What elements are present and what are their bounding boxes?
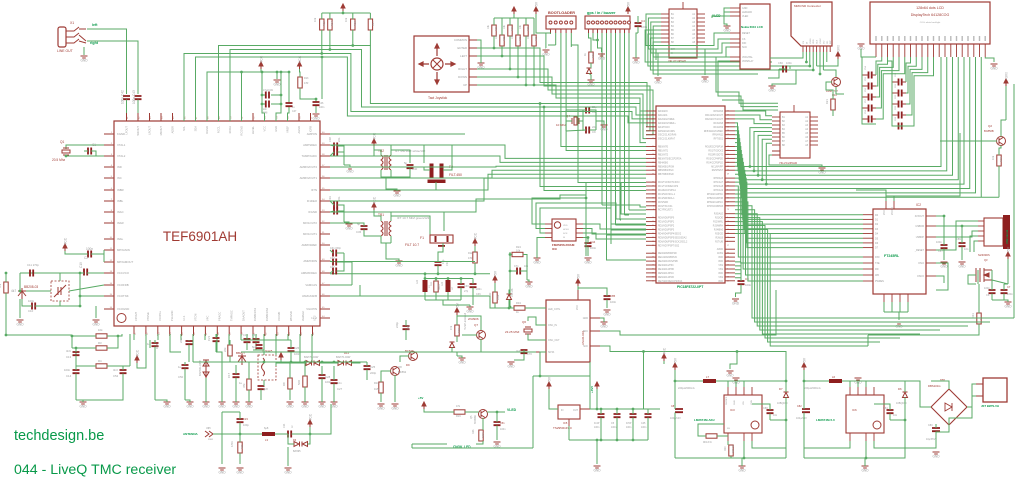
resistor R25 10k (516, 35, 520, 46)
transistor Q5 BC8568 (479, 410, 488, 419)
svg-text:GND: GND (377, 407, 385, 411)
svg-text:C26: C26 (294, 346, 300, 350)
resistor R10 1M (379, 382, 383, 393)
svg-text:MPXAMOUT: MPXAMOUT (117, 260, 133, 264)
capacitor C9 22p (586, 127, 589, 134)
svg-text:VDISPLAY: VDISPLAY (742, 60, 754, 63)
svg-text:RE1/AD9/WR/P2C: RE1/AD9/WR/P2C (658, 256, 677, 259)
capacitor C29 220p (403, 326, 410, 329)
wires Q6 (528, 317, 546, 340)
svg-text:WP: WP (830, 40, 832, 44)
svg-text:10 MhZ: 10 MhZ (556, 123, 566, 127)
svg-text:GND: GND (16, 323, 24, 327)
svg-text:RD6/AD6/PSP6/SCK2/SCL2: RD6/AD6/PSP6/SCK2/SCL2 (658, 240, 688, 243)
wires IC7 to mmc (645, 30, 796, 74)
inductor L5 110nH dashed (258, 355, 276, 380)
svg-text:C15: C15 (155, 343, 159, 349)
capacitor C51 100n (494, 422, 501, 425)
svg-text:1u5: 1u5 (441, 281, 444, 286)
svg-text:R30: R30 (591, 53, 595, 58)
capacitor C49 47u (266, 92, 269, 99)
svg-text:IC6: IC6 (852, 408, 857, 412)
svg-text:RA2/AN2/VREF-: RA2/AN2/VREF- (658, 118, 675, 121)
capacitor C7 100n (1001, 290, 1008, 293)
svg-text:220µH/300mA: 220µH/300mA (804, 386, 821, 390)
svg-text:BC856B: BC856B (984, 129, 994, 133)
svg-text:R12: R12 (468, 252, 473, 255)
svg-text:5p: 5p (404, 161, 408, 165)
svg-text:C18: C18 (243, 333, 248, 337)
svg-text:RC4/SDI/SDA-1: RC4/SDI/SDA-1 (658, 197, 675, 200)
connector X2 JST B2PS-VH (983, 378, 1007, 402)
joystick pins (454, 38, 477, 87)
svg-text:GND: GND (301, 405, 309, 409)
svg-text:WR: WR (875, 274, 879, 277)
svg-text:RH1/A17: RH1/A17 (714, 181, 724, 184)
capacitor C2 100n (88, 251, 91, 258)
svg-text:LINE OUT: LINE OUT (57, 49, 73, 53)
svg-text:100n: 100n (786, 61, 792, 65)
resistor R8 (288, 378, 292, 389)
supply VCC R12 (473, 239, 477, 246)
svg-text:PWREN: PWREN (875, 280, 884, 283)
svg-text:GND: GND (232, 405, 240, 409)
svg-text:C36: C36 (356, 230, 362, 234)
svg-text:RD2/AD2/PSP2: RD2/AD2/PSP2 (658, 225, 675, 228)
svg-text:IC9: IC9 (552, 247, 557, 251)
svg-text:044 - LiveQ TMC receiver: 044 - LiveQ TMC receiver (14, 462, 176, 478)
svg-text:100n: 100n (745, 283, 752, 287)
svg-text:10k: 10k (98, 328, 103, 332)
svg-text:AMMX2OUT2: AMMX2OUT2 (300, 165, 318, 169)
svg-text:GND: GND (587, 83, 595, 87)
svg-text:100n: 100n (984, 286, 990, 290)
capacitor C45 100n (645, 414, 652, 417)
svg-text:FILT.450: FILT.450 (449, 173, 462, 177)
svg-text:GND: GND (395, 264, 403, 268)
svg-text:VCOGND: VCOGND (117, 307, 129, 311)
resistor R29 10k (524, 25, 528, 36)
svg-text:100n: 100n (28, 299, 35, 303)
svg-text:VGCPIN: VGCPIN (306, 307, 317, 311)
resistor R23 10k (500, 35, 504, 46)
svg-text:100n: 100n (1007, 292, 1013, 296)
supply +5V reg2 (802, 363, 806, 370)
svg-text:C32: C32 (330, 257, 335, 260)
svg-text:RF7/SS1: RF7/SS1 (714, 139, 724, 141)
svg-text:+5V: +5V (456, 302, 460, 309)
svg-text:RB2/INT2: RB2/INT2 (658, 154, 669, 156)
svg-text:100n: 100n (641, 426, 647, 429)
connector X3 USB mini-B (984, 218, 1003, 246)
svg-text:RG4/CCP5/P1D: RG4/CCP5/P1D (706, 162, 723, 164)
supply arrow top resistors (341, 4, 345, 11)
svg-text:ANTENNA: ANTENNA (183, 432, 198, 436)
svg-text:INBL: INBL (117, 199, 124, 203)
svg-text:R15: R15 (322, 21, 326, 26)
svg-text:D9: D9 (406, 363, 410, 367)
svg-text:R26: R26 (495, 26, 498, 31)
capacitor C3 100n (738, 281, 745, 284)
svg-text:128x64 dots LCD: 128x64 dots LCD (916, 6, 944, 10)
svg-text:XTAL1: XTAL1 (117, 143, 126, 147)
svg-text:GND: GND (92, 323, 100, 327)
module U2 radio body (546, 300, 590, 362)
wires R22 D8 (495, 283, 510, 308)
svg-text:100n C43: 100n C43 (132, 90, 136, 104)
wire mpx (65, 250, 104, 262)
transistor Q10 FMMT717 (832, 78, 841, 87)
ground gps pin3 (598, 54, 605, 56)
svg-text:C70: C70 (527, 352, 532, 356)
wire bus pic right to ft245 (735, 154, 863, 247)
transistor D9 BC848 (409, 352, 418, 361)
svg-text:PLLGND: PLLGND (170, 310, 174, 321)
regulator IC3 LM2674M-ADJ body (724, 395, 762, 433)
svg-text:Q1: Q1 (60, 140, 64, 144)
capacitor C49b 22u (186, 341, 193, 344)
svg-text:OSC2/CLKO/RA6: OSC2/CLKO/RA6 (658, 134, 677, 137)
U1 pin numbers (110, 116, 326, 335)
svg-text:I.C.1: I.C.1 (182, 315, 186, 321)
crystal Q4 10MHz (572, 117, 579, 125)
svg-text:R20: R20 (724, 446, 727, 451)
svg-text:23.25 MhZ: 23.25 MhZ (505, 330, 520, 334)
svg-text:VREF: VREF (286, 126, 290, 133)
buffer IC8 74LVC245AD body (780, 112, 810, 158)
svg-text:L6: L6 (832, 375, 836, 379)
ground C89 (959, 262, 966, 264)
svg-text:GND: GND (734, 400, 736, 405)
svg-text:AGND: AGND (297, 126, 301, 134)
ground C6 C7 (1005, 302, 1012, 304)
ground MMC (769, 86, 776, 88)
svg-text:C33: C33 (328, 196, 332, 201)
microcontroller IC1 PIC18F8722 body (656, 106, 725, 283)
svg-text:VCC: VCC (663, 347, 667, 355)
svg-text:ADDR: ADDR (171, 126, 175, 133)
ground jack (83, 47, 85, 55)
svg-text:R1: R1 (0, 284, 2, 288)
svg-text:GND: GND (186, 405, 194, 409)
capacitor C19b (253, 339, 260, 342)
svg-text:RB1/INT1: RB1/INT1 (658, 151, 669, 153)
svg-text:6p8: 6p8 (263, 387, 268, 391)
resistor R14 10k (328, 19, 332, 30)
capacitor C85 100n (604, 296, 611, 299)
svg-text:INAR: INAR (117, 221, 124, 225)
resistor R11 560R (434, 281, 438, 292)
svg-text:AMMX2OUT1: AMMX2OUT1 (300, 176, 318, 180)
ground C70 (508, 362, 515, 364)
wires gps header (589, 33, 630, 235)
ground D4 (203, 402, 210, 404)
svg-text:USBDM: USBDM (915, 225, 924, 228)
svg-text:3n3: 3n3 (113, 368, 118, 372)
svg-text:RF1/AN6/C2OUT: RF1/AN6/C2OUT (705, 114, 723, 117)
resistor R15 10k (320, 19, 324, 30)
resistor R1 4k7 (4, 282, 8, 293)
svg-text:RB5/KBI1/PGM: RB5/KBI1/PGM (658, 166, 674, 168)
svg-text:GND: GND (583, 317, 589, 320)
svg-text:C30: C30 (464, 285, 469, 288)
ground C3 (732, 299, 739, 301)
svg-text:GND: GND (312, 117, 320, 121)
svg-text:JST B2PS-VH: JST B2PS-VH (981, 404, 999, 408)
ground C14 (80, 402, 87, 404)
capacitor C13 3n9 (73, 352, 80, 355)
svg-text:_RESET: _RESET (914, 249, 925, 252)
capacitor C66 100n (783, 66, 786, 73)
svg-text:IC4P: IC4P (594, 422, 600, 425)
ground FT245 (896, 322, 903, 324)
svg-text:INAL: INAL (117, 237, 124, 241)
U1 bottom pins (134, 307, 317, 336)
capacitor ladder C59-C63 (899, 79, 902, 130)
svg-text:C7: C7 (1007, 285, 1011, 289)
svg-text:VCC: VCC (263, 126, 267, 132)
svg-text:R17: R17 (371, 21, 375, 26)
svg-text:GND: GND (318, 405, 326, 409)
svg-text:VCOFDB: VCOFDB (117, 283, 129, 287)
svg-text:HLMP-EG/EG3: HLMP-EG/EG3 (464, 312, 467, 330)
ground below pic (727, 371, 734, 373)
IC6 pins (850, 387, 874, 441)
svg-text:220µH/300mA: 220µH/300mA (678, 386, 695, 390)
wires C70 (514, 350, 536, 360)
svg-text:RG5/TEST: RG5/TEST (712, 170, 724, 172)
diode D7 10BQ040 (784, 392, 789, 398)
svg-text:22k: 22k (223, 347, 227, 352)
svg-text:R21: R21 (825, 99, 829, 104)
svg-text:RE3/AD11/P3C: RE3/AD11/P3C (658, 264, 674, 267)
wire pic left extra (540, 45, 646, 191)
svg-text:RCDA: RCDA (228, 126, 232, 134)
svg-text:C31 150p: C31 150p (330, 247, 341, 250)
svg-text:GND: GND (738, 469, 746, 473)
supply VCC tuner (63, 244, 67, 251)
ground varactor 2 (93, 320, 100, 322)
svg-text:MMC/SD Connector: MMC/SD Connector (794, 4, 821, 8)
svg-text:AMPSDEC: AMPSDEC (303, 143, 317, 147)
svg-text:FMMX1IN2: FMMX1IN2 (265, 307, 269, 321)
svg-text:PIC18F8722-I/PT: PIC18F8722-I/PT (677, 285, 704, 289)
ground IC7 right (702, 77, 709, 79)
svg-text:ON/OFF: ON/OFF (726, 396, 728, 405)
svg-text:100p: 100p (243, 423, 249, 427)
diode D3 BA595 (294, 442, 300, 447)
svg-text:RC1/T1OSI/ECCP2: RC1/T1OSI/ECCP2 (658, 186, 679, 188)
svg-text:49: 49 (727, 174, 729, 176)
svg-text:+5V: +5V (1007, 246, 1011, 253)
ground C47 (941, 262, 948, 264)
wires FT245 bottom (884, 302, 908, 320)
wires R2 R3 R4 (6, 334, 130, 366)
wire joystick up to pic (477, 85, 646, 143)
diode D4 BAP64L-04W (203, 360, 209, 378)
wires TR2 (330, 145, 424, 177)
capacitor C87 100u (675, 409, 683, 412)
wires bridge (905, 381, 976, 448)
svg-text:VLED: VLED (742, 15, 749, 18)
regulator IC5 TS2950 body (558, 405, 580, 419)
svg-text:RD: RD (875, 268, 879, 271)
svg-text:1K5/1%: 1K5/1% (733, 445, 735, 453)
resistor R26 10k (492, 25, 496, 36)
capacitor C18 (244, 339, 251, 342)
svg-text:OUT: OUT (573, 409, 579, 412)
connector U4 MMC/SD body (791, 2, 832, 46)
wires C13 C14 (75, 348, 77, 400)
svg-text:C4: C4 (641, 19, 645, 23)
svg-text:VCC: VCC (474, 232, 478, 240)
svg-text:RA3/AN3/VREF+: RA3/AN3/VREF+ (658, 122, 676, 125)
display U5 128x64 LCD body (870, 2, 990, 44)
svg-text:HOLD: HOLD (563, 229, 569, 231)
svg-text:I.C.2: I.C.2 (313, 315, 317, 321)
svg-text:GND: GND (393, 194, 401, 198)
capacitor C27 10n (331, 380, 338, 383)
ground TR1 (396, 261, 403, 263)
transistor Q8 BF862 (391, 367, 400, 376)
diode D8 1N4148 (507, 294, 512, 300)
wires caps column (330, 262, 360, 296)
svg-text:RE2/AD10/CS/P2B: RE2/AD10/CS/P2B (658, 260, 678, 263)
svg-text:R29: R29 (527, 26, 530, 31)
svg-text:MIX1OUT2: MIX1OUT2 (303, 221, 317, 225)
ground IC7 (655, 78, 662, 80)
svg-text:R19: R19 (999, 157, 1003, 162)
svg-text:GND: GND (236, 471, 244, 475)
U1 top pins (125, 113, 313, 136)
wires IC6 (804, 370, 905, 458)
ground C46 (313, 114, 320, 116)
svg-text:100n: 100n (936, 240, 942, 244)
svg-text:+5V: +5V (577, 273, 581, 280)
wires module right (600, 290, 786, 409)
svg-text:MPXANIN: MPXANIN (117, 248, 130, 252)
resistor R35 10k (532, 35, 536, 46)
resistor R2 10k (96, 334, 107, 338)
capacitor C22 6p8 (256, 345, 263, 348)
ground antenna 2 (237, 468, 244, 470)
svg-text:VDD: VDD (563, 225, 568, 227)
svg-text:C21: C21 (207, 335, 211, 341)
svg-text:IC3: IC3 (730, 408, 735, 412)
supply joystick (512, 7, 516, 14)
resistor R13 47R chip top (298, 77, 302, 88)
svg-text:VLED: VLED (507, 408, 517, 412)
wire bus top lines from chip (184, 46, 646, 123)
ground under F1 (467, 307, 474, 309)
svg-text:GND: GND (723, 29, 731, 33)
svg-text:C19: C19 (252, 333, 257, 337)
svg-text:3n9: 3n9 (66, 349, 71, 353)
svg-text:10k: 10k (313, 17, 317, 22)
svg-text:RD7/AD7/PSP7/SS2: RD7/AD7/PSP7/SS2 (658, 244, 680, 247)
svg-text:R35: R35 (535, 36, 538, 41)
svg-text:FMMX1IN1: FMMX1IN1 (253, 307, 257, 321)
svg-text:TXE: TXE (875, 262, 880, 265)
svg-text:COG: white backlight: COG: white backlight (920, 21, 941, 24)
svg-text:3V3OUT: 3V3OUT (915, 215, 925, 218)
svg-text:C10: C10 (28, 309, 34, 313)
svg-text:IFT 10.7 MhZ green/123: IFT 10.7 MhZ green/123 (397, 216, 430, 220)
ground bootloader (543, 50, 550, 52)
supply module +5V (576, 279, 580, 286)
ground chip top (274, 80, 281, 82)
wires mid cluster rails (193, 340, 367, 400)
svg-text:+5V: +5V (535, 1, 539, 8)
svg-text:R24: R24 (516, 245, 521, 249)
svg-text:USBDP: USBDP (916, 236, 925, 239)
wires C38 (330, 145, 344, 165)
supply VCC below pic (662, 354, 666, 361)
capacitor bank IC4P (598, 414, 605, 417)
transistor Q7 2N3906 (477, 331, 486, 340)
svg-text:6p8: 6p8 (252, 345, 257, 349)
svg-text:4k7: 4k7 (11, 289, 16, 293)
svg-text:VAMCASFB: VAMCASFB (302, 294, 317, 298)
usb interface IC2 FT245RL body (873, 209, 926, 294)
svg-text:1M5: 1M5 (374, 387, 380, 391)
supply MMC +3V0 (836, 52, 840, 59)
svg-text:DIO: DIO (742, 42, 746, 45)
capacitor C42 100n (123, 96, 130, 99)
svg-text:VSS1: VSS1 (810, 38, 812, 44)
ground C38 (347, 167, 354, 169)
capacitor C52 3n3 (120, 370, 127, 373)
svg-text:GND: GND (632, 61, 640, 65)
svg-text:GND: GND (284, 471, 292, 475)
wires joystick resistors (494, 14, 534, 85)
wires FT245 right (936, 216, 978, 290)
svg-text:6µ8: 6µ8 (264, 426, 269, 430)
wires Q2 (940, 84, 1014, 318)
svg-text:R28: R28 (457, 328, 461, 333)
svg-text:RH2/A18: RH2/A18 (714, 185, 724, 188)
svg-text:RCCL: RCCL (217, 125, 221, 133)
svg-text:XTAL2: XTAL2 (117, 154, 126, 158)
svg-text:GND: GND (330, 405, 338, 409)
wires R34 (360, 296, 546, 308)
svg-text:22n: 22n (337, 137, 341, 142)
svg-text:CD: CD (827, 40, 829, 44)
svg-text:LM2674M-ADJ: LM2674M-ADJ (694, 418, 715, 422)
LED D10 (587, 68, 592, 74)
supply Q7 (455, 308, 459, 315)
svg-text:GND: GND (163, 405, 171, 409)
svg-text:10k: 10k (991, 155, 995, 160)
svg-text:GND: GND (768, 89, 776, 93)
ground antenna 1 (219, 468, 226, 470)
wires Q4 (566, 110, 602, 131)
svg-text:100n: 100n (626, 426, 632, 429)
svg-text:RD5/AD5/PSP5/SDI2/SDA2: RD5/AD5/PSP5/SDI2/SDA2 (658, 236, 687, 239)
inductor L3 6u8 (262, 432, 275, 436)
capacitor C25 220p (364, 366, 371, 369)
svg-text:IC2: IC2 (916, 203, 921, 207)
svg-text:C13: C13 (66, 355, 72, 359)
svg-text:GND: GND (466, 310, 474, 314)
ground C44 (585, 258, 592, 260)
ground C17 (233, 402, 240, 404)
svg-text:2N3906: 2N3906 (468, 317, 479, 321)
svg-text:VTUNE: VTUNE (146, 312, 150, 321)
svg-text:SCK: SCK (583, 345, 588, 348)
svg-text:47k: 47k (449, 325, 453, 330)
svg-text:GND: GND (525, 285, 533, 289)
